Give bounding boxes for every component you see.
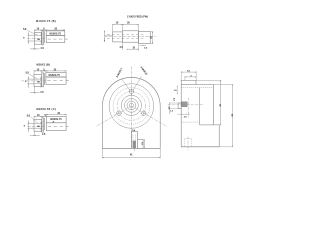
view C shank outline bbox=[46, 123, 66, 131]
svg-text:M16X0.75 (B): M16X0.75 (B) bbox=[36, 19, 56, 23]
view E boss hidden hole lines bbox=[132, 135, 134, 149]
view C bottom dimension line bbox=[30, 134, 40, 136]
view E body outline (rounded top) bbox=[102, 77, 160, 148]
view A centerline bbox=[27, 38, 45, 40]
svg-text:2.5: 2.5 bbox=[184, 117, 188, 119]
svg-text:1.2: 1.2 bbox=[170, 110, 174, 112]
view F pocket hidden top line bbox=[181, 87, 213, 89]
view D left extension line bbox=[104, 34, 113, 36]
view D bore hidden line upper bbox=[107, 33, 145, 35]
svg-text:M16X0.75: M16X0.75 bbox=[50, 119, 62, 121]
view D right flange dimension line bbox=[151, 32, 153, 44]
svg-text:6H: 6H bbox=[37, 82, 40, 84]
view A shank centerline dashes bbox=[48, 38, 69, 40]
svg-text:E: E bbox=[53, 122, 55, 124]
view C thread label box bbox=[46, 117, 66, 123]
view C thread dimension line (20) bbox=[46, 114, 66, 116]
svg-text:6: 6 bbox=[23, 38, 25, 40]
svg-text:20: 20 bbox=[127, 23, 130, 25]
view E counterbore circle bbox=[121, 95, 141, 115]
view D flange thickness dimension bbox=[140, 45, 146, 47]
svg-text:M16X1 (B): M16X1 (B) bbox=[36, 63, 49, 67]
view F clamp extension lines bbox=[170, 102, 181, 104]
view C inner bore dimension arrows bbox=[40, 121, 42, 132]
view A chamfer leader line bbox=[27, 31, 38, 36]
view B chamfer leader line bbox=[29, 74, 38, 79]
view E bottom width dimension line bbox=[102, 156, 160, 158]
view D right flange outline bbox=[138, 32, 150, 44]
svg-text:6: 6 bbox=[25, 81, 27, 83]
view B top dimension arrows bbox=[34, 69, 36, 72]
svg-text:2.5: 2.5 bbox=[40, 92, 44, 94]
view A shank outline bbox=[46, 35, 65, 42]
view D left bore dimension line bbox=[104, 30, 106, 40]
svg-text:Z AXIS FEED (FW): Z AXIS FEED (FW) bbox=[127, 15, 148, 18]
svg-text:5.8: 5.8 bbox=[27, 115, 31, 117]
svg-text:41: 41 bbox=[130, 155, 133, 157]
svg-text:2.5: 2.5 bbox=[42, 134, 46, 136]
svg-text:12: 12 bbox=[150, 36, 152, 39]
view E bottom boss outline tall bbox=[132, 132, 138, 149]
view B flange plate outline bbox=[42, 73, 44, 87]
view D top dimension extension lines bbox=[112, 24, 114, 32]
view E lower-left bolt hole centerline ray bbox=[96, 106, 131, 126]
view F overall height dimension line (80) bbox=[231, 85, 233, 147]
view E bolt hole (lower-right) bbox=[142, 111, 146, 115]
svg-text:M16X0.75: M16X0.75 bbox=[49, 75, 61, 77]
view B centerline bbox=[22, 80, 46, 82]
view C bore hidden line upper bbox=[28, 122, 42, 124]
svg-text:2.5: 2.5 bbox=[120, 47, 124, 49]
view A top dimension extension lines bbox=[33, 29, 35, 32]
view C neck line bbox=[44, 118, 46, 130]
view E boss centerline bbox=[133, 149, 135, 151]
view E bore circle small bbox=[129, 103, 133, 107]
svg-text:3.4: 3.4 bbox=[172, 98, 174, 102]
svg-text:1.6: 1.6 bbox=[174, 90, 178, 92]
view E bolt hole (lower-left) bbox=[117, 111, 121, 115]
view F clamp bottom dimension line bbox=[177, 113, 190, 115]
view E thread callout right leader bbox=[133, 76, 142, 90]
view F bottom boss centerline bbox=[187, 137, 189, 151]
view C bottom dimension extension line bbox=[34, 131, 36, 136]
view F pocket depth extension line bbox=[196, 79, 221, 81]
view F clamp upper dimension line bbox=[176, 85, 178, 94]
view F clamp hatched section bbox=[182, 102, 188, 107]
view C chamfer leader line bbox=[30, 117, 38, 124]
view E flange circle bbox=[109, 84, 154, 129]
view F far left dimension line bbox=[169, 102, 171, 114]
view D middle section outline bbox=[122, 31, 138, 42]
svg-text:10: 10 bbox=[116, 23, 119, 25]
view B neck line bbox=[43, 73, 45, 85]
view F cap seam line bbox=[181, 84, 196, 86]
view A top dimension line bbox=[34, 29, 65, 31]
view A bore hidden line lower bbox=[28, 40, 42, 42]
view A flange plate outline bbox=[42, 31, 44, 45]
svg-text:M16X0.75: M16X0.75 bbox=[50, 33, 62, 35]
view E bolt circle (dash-dot) bbox=[117, 92, 146, 121]
view E bore circle large bbox=[124, 99, 138, 113]
view E bore circle mid bbox=[127, 101, 136, 110]
view B bottom dimension extension line bbox=[33, 86, 35, 93]
view B top dimension line bbox=[34, 70, 66, 72]
view F overall height extension lines bbox=[213, 84, 233, 86]
svg-text:3-M4X0.7: 3-M4X0.7 bbox=[117, 67, 124, 78]
view F bottom dashed boss box bbox=[184, 139, 192, 147]
view E boss step dimension line bbox=[144, 139, 146, 148]
view B bottom dimension line bbox=[30, 92, 40, 94]
view F pocket inner wall bbox=[199, 88, 201, 125]
svg-text:5.8: 5.8 bbox=[26, 73, 30, 75]
view A top dimension arrows bbox=[34, 29, 36, 32]
view F clamp protruding block bbox=[178, 103, 181, 109]
view F top dimension line 2 bbox=[185, 76, 196, 78]
view B shank outline bbox=[46, 77, 66, 84]
view B top dimension extension lines bbox=[33, 70, 35, 75]
view E lower-right bolt hole centerline ray bbox=[131, 106, 166, 126]
view F pocket hidden bottom line bbox=[181, 121, 199, 123]
view E boss hatched plug bbox=[133, 141, 136, 148]
view A hub block outline bbox=[34, 33, 42, 45]
view E boss width ticks bbox=[131, 129, 133, 131]
view F body outline bbox=[181, 80, 219, 146]
svg-text:M16X0.55 (C): M16X0.55 (C) bbox=[36, 107, 56, 111]
svg-text:6: 6 bbox=[104, 41, 106, 43]
view D centerline bbox=[105, 35, 157, 37]
view A thread label box bbox=[46, 31, 65, 36]
view F centerline through clamp detail bbox=[168, 104, 204, 106]
view F clamp vertical centerline bbox=[188, 98, 190, 118]
view F pocket shelf line bbox=[200, 124, 214, 126]
view E bolt hole (top) bbox=[129, 90, 133, 94]
view D right flange extension lines bbox=[150, 31, 153, 33]
view C head dimension line (10, 5) bbox=[34, 116, 46, 118]
view D bore hidden line lower bbox=[107, 38, 145, 40]
svg-text:3-M4X10: 3-M4X10 bbox=[140, 67, 148, 77]
view C centerline bbox=[27, 125, 45, 127]
view F pocket depth dimension line (45) bbox=[219, 80, 221, 125]
view D bottom extension lines bbox=[121, 42, 123, 50]
view C hub block outline bbox=[34, 120, 42, 132]
svg-text:6: 6 bbox=[24, 126, 26, 128]
view D bottom dimension line bbox=[127, 48, 139, 50]
svg-text:2.5: 2.5 bbox=[144, 47, 148, 49]
view A bottom dimension line bbox=[30, 48, 40, 50]
view B inner bore dimension arrows bbox=[40, 76, 42, 87]
view C shank centerline dashes bbox=[48, 126, 70, 128]
view E boss circle (dashed) bbox=[113, 88, 150, 125]
view A bore hidden line upper bbox=[28, 34, 42, 36]
view A neck line bbox=[43, 31, 45, 43]
view F top dimension extension lines bbox=[180, 71, 182, 80]
view C left bore dimension line bbox=[27, 121, 29, 133]
svg-text:7.5: 7.5 bbox=[141, 142, 143, 146]
svg-text:2.5: 2.5 bbox=[41, 48, 45, 50]
view B shank centerline dashes bbox=[47, 80, 70, 82]
view D top dimension arrows bbox=[113, 23, 115, 26]
view F top dimension line 1 bbox=[181, 71, 196, 73]
view A bottom dimension extension line bbox=[34, 44, 36, 49]
view D left section outline bbox=[113, 32, 123, 42]
view E thread callout left leader bbox=[122, 79, 130, 90]
view E bottom boss step outline bbox=[138, 139, 143, 148]
view B left bore dimension line bbox=[27, 76, 29, 88]
view D top dimension line bbox=[113, 24, 139, 26]
view B bore hidden line upper bbox=[28, 78, 42, 80]
view B thread label box bbox=[46, 73, 66, 77]
view B bore hidden line lower bbox=[28, 83, 42, 85]
view B hub block outline bbox=[34, 75, 42, 87]
view A inner bore dimension arrows bbox=[40, 32, 42, 43]
view E vertical centerline bbox=[130, 67, 132, 149]
view E bottom width extension lines bbox=[101, 149, 103, 159]
view C flange plate outline bbox=[42, 118, 44, 132]
view C bore hidden line lower bbox=[28, 127, 42, 129]
svg-text:4.5: 4.5 bbox=[167, 107, 169, 111]
svg-text:5.8: 5.8 bbox=[23, 29, 27, 31]
view A left bore dimension line bbox=[27, 32, 29, 44]
